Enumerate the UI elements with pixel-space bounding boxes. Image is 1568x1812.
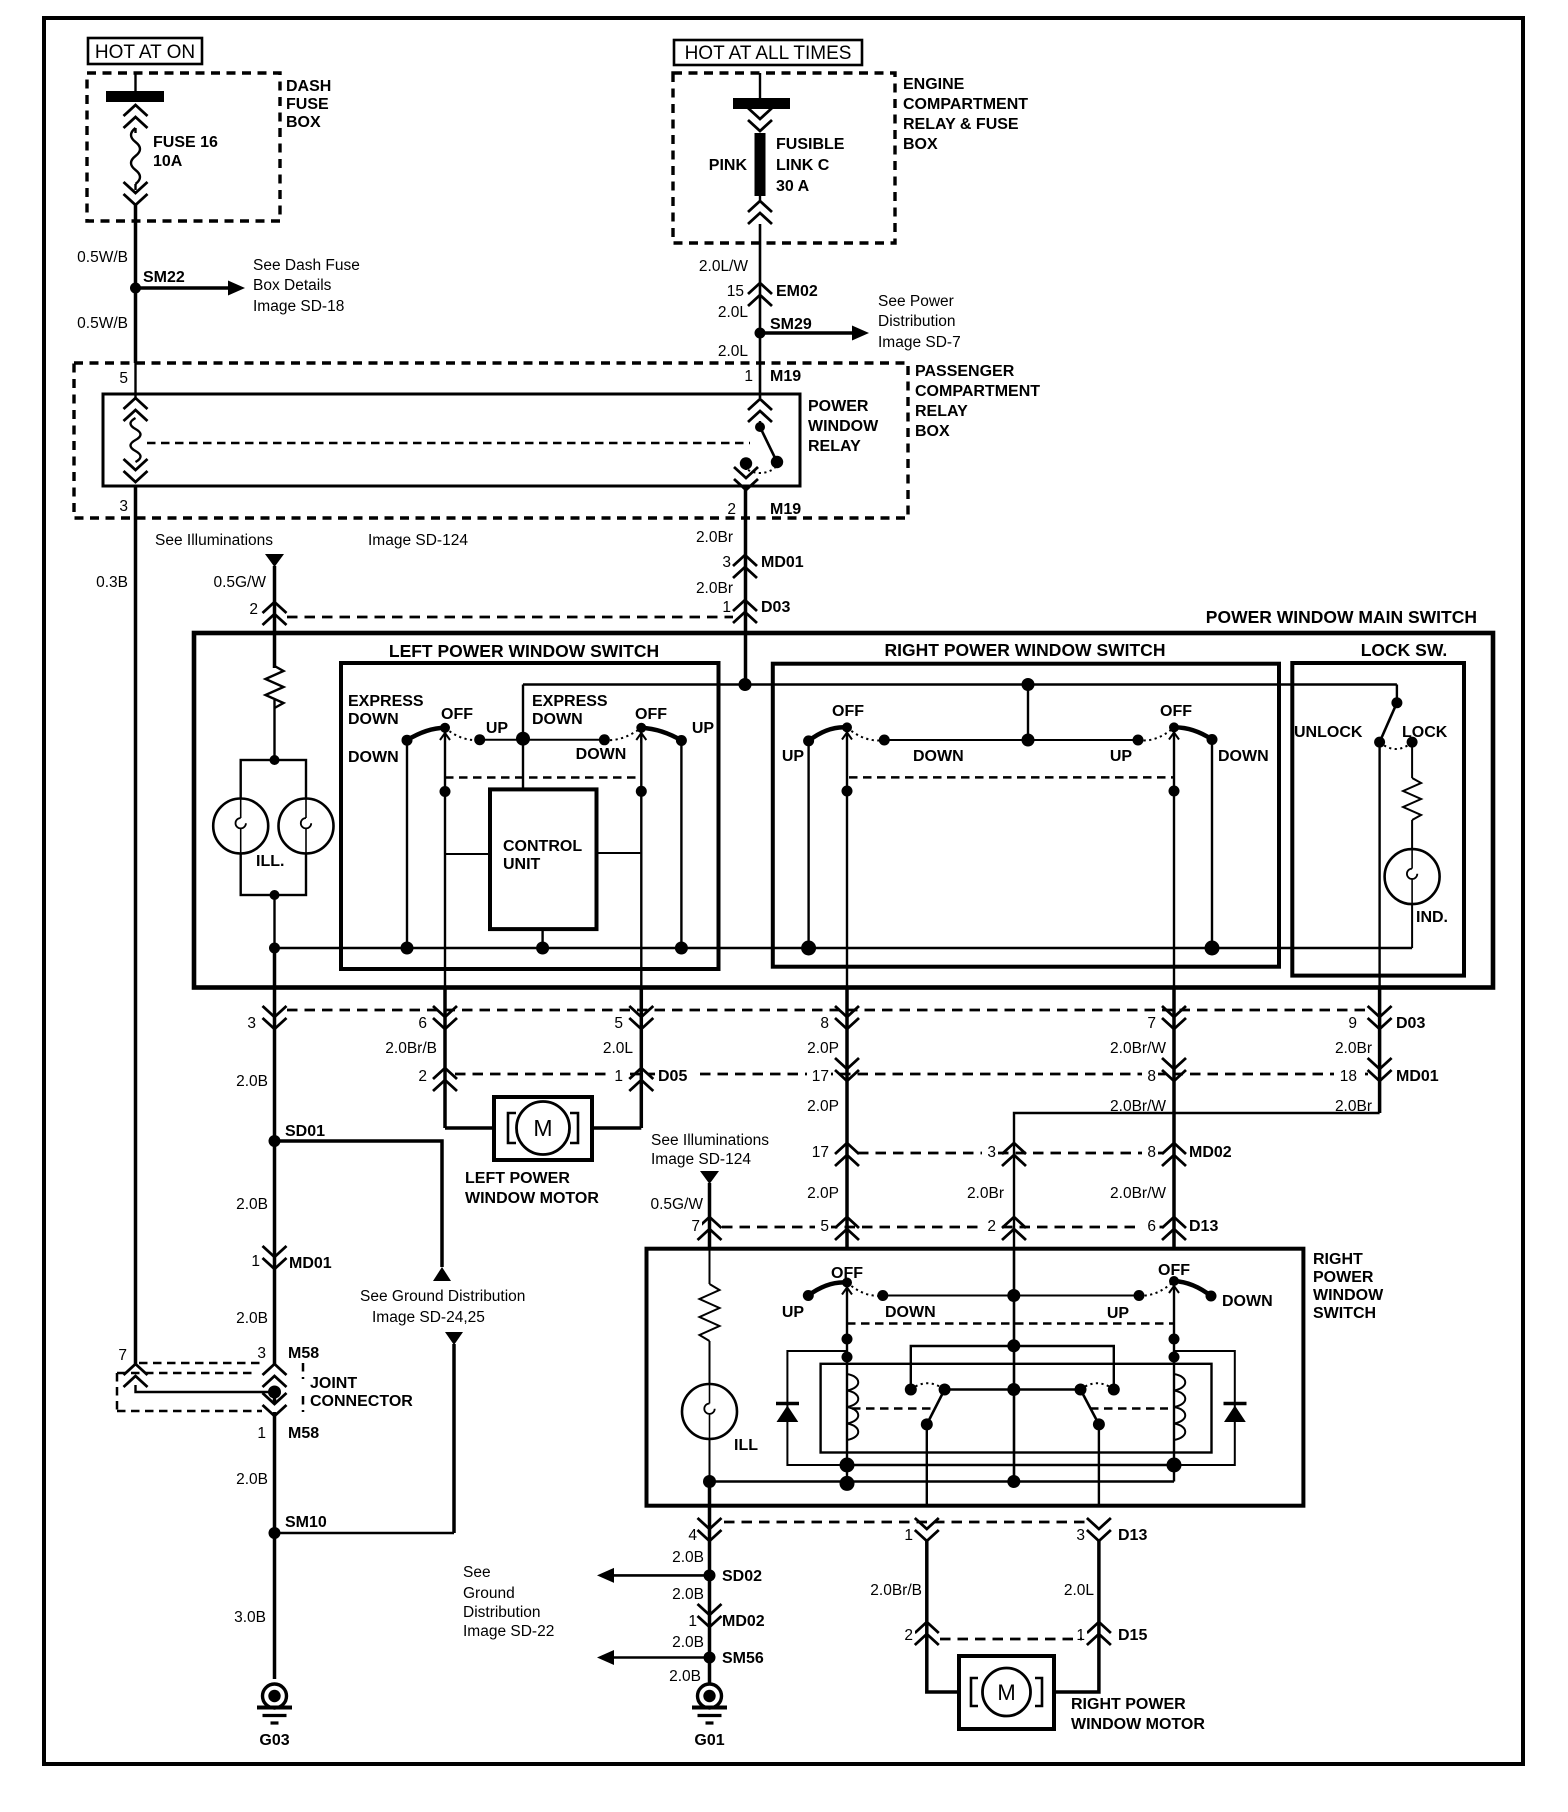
svg-text:1: 1: [251, 1253, 260, 1270]
svg-text:1: 1: [688, 1613, 697, 1630]
svg-text:1: 1: [1076, 1627, 1085, 1644]
svg-text:BOX: BOX: [903, 136, 938, 153]
svg-text:WINDOW MOTOR: WINDOW MOTOR: [1071, 1716, 1205, 1733]
svg-text:UP: UP: [782, 1304, 805, 1321]
svg-text:MD02: MD02: [1189, 1144, 1232, 1161]
svg-text:2: 2: [418, 1068, 427, 1085]
svg-text:2.0B: 2.0B: [236, 1310, 268, 1327]
svg-text:SM29: SM29: [770, 316, 812, 333]
svg-text:DOWN: DOWN: [913, 748, 964, 765]
svg-text:2.0L: 2.0L: [1064, 1582, 1095, 1599]
svg-text:0.5G/W: 0.5G/W: [650, 1196, 703, 1213]
svg-text:Image SD-124: Image SD-124: [651, 1151, 751, 1168]
svg-text:2.0L: 2.0L: [718, 343, 749, 360]
svg-text:CONTROL: CONTROL: [503, 838, 582, 855]
svg-text:2.0B: 2.0B: [236, 1196, 268, 1213]
svg-text:8: 8: [1147, 1144, 1156, 1161]
svg-text:2.0Br/B: 2.0Br/B: [385, 1040, 437, 1057]
svg-text:2: 2: [987, 1218, 996, 1235]
svg-text:D15: D15: [1118, 1627, 1147, 1644]
svg-text:LEFT POWER: LEFT POWER: [465, 1170, 570, 1187]
svg-text:UP: UP: [486, 720, 509, 737]
svg-text:DOWN: DOWN: [348, 711, 399, 728]
svg-text:10A: 10A: [153, 153, 183, 170]
svg-text:2.0Br: 2.0Br: [1335, 1040, 1372, 1057]
svg-text:5: 5: [614, 1015, 623, 1032]
svg-text:RELAY & FUSE: RELAY & FUSE: [903, 116, 1019, 133]
svg-text:2.0L/W: 2.0L/W: [699, 258, 748, 275]
svg-text:3: 3: [257, 1345, 266, 1362]
svg-text:17: 17: [812, 1144, 829, 1161]
svg-text:2.0B: 2.0B: [236, 1073, 268, 1090]
svg-text:Ground: Ground: [463, 1585, 515, 1602]
svg-text:WINDOW MOTOR: WINDOW MOTOR: [465, 1190, 599, 1207]
svg-text:FUSE: FUSE: [286, 96, 329, 113]
svg-text:SM10: SM10: [285, 1514, 327, 1531]
svg-text:DOWN: DOWN: [1222, 1293, 1273, 1310]
svg-text:M19: M19: [770, 501, 801, 518]
svg-text:ENGINE: ENGINE: [903, 76, 965, 93]
svg-text:See Illuminations: See Illuminations: [651, 1132, 769, 1149]
svg-text:2: 2: [249, 601, 258, 618]
svg-text:6: 6: [1147, 1218, 1156, 1235]
svg-text:SD02: SD02: [722, 1568, 762, 1585]
svg-text:Image SD-124: Image SD-124: [368, 532, 468, 549]
svg-text:RIGHT: RIGHT: [1313, 1251, 1363, 1268]
svg-text:M19: M19: [770, 368, 801, 385]
svg-text:17: 17: [812, 1068, 829, 1085]
svg-text:RELAY: RELAY: [915, 403, 968, 420]
svg-text:RIGHT POWER WINDOW SWITCH: RIGHT POWER WINDOW SWITCH: [885, 640, 1166, 660]
svg-text:UP: UP: [692, 720, 715, 737]
svg-text:MD01: MD01: [761, 554, 804, 571]
svg-text:MD01: MD01: [289, 1255, 332, 1272]
svg-text:7: 7: [118, 1347, 127, 1364]
svg-text:SWITCH: SWITCH: [1313, 1305, 1376, 1322]
svg-text:30 A: 30 A: [776, 178, 810, 195]
svg-text:2.0L: 2.0L: [603, 1040, 634, 1057]
svg-text:2.0B: 2.0B: [672, 1634, 704, 1651]
svg-text:D03: D03: [1396, 1015, 1425, 1032]
svg-text:OFF: OFF: [441, 706, 473, 723]
svg-text:9: 9: [1348, 1015, 1357, 1032]
svg-text:See Illuminations: See Illuminations: [155, 532, 273, 549]
svg-text:COMPARTMENT: COMPARTMENT: [915, 383, 1040, 400]
svg-text:EXPRESS: EXPRESS: [532, 693, 608, 710]
svg-text:7: 7: [1147, 1015, 1156, 1032]
svg-text:0.3B: 0.3B: [96, 574, 128, 591]
svg-text:Image SD-22: Image SD-22: [463, 1623, 554, 1640]
svg-text:2.0Br: 2.0Br: [967, 1185, 1004, 1202]
svg-text:LOCK: LOCK: [1402, 724, 1448, 741]
svg-text:0.5W/B: 0.5W/B: [77, 249, 128, 266]
svg-text:HOT AT ON: HOT AT ON: [95, 42, 195, 63]
svg-text:FUSE 16: FUSE 16: [153, 134, 218, 151]
svg-text:2: 2: [727, 501, 736, 518]
svg-text:EXPRESS: EXPRESS: [348, 693, 424, 710]
svg-text:DOWN: DOWN: [532, 711, 583, 728]
svg-text:M: M: [997, 1680, 1015, 1705]
svg-text:5: 5: [820, 1218, 829, 1235]
svg-text:1: 1: [904, 1527, 913, 1544]
svg-text:RELAY: RELAY: [808, 438, 861, 455]
svg-text:MD01: MD01: [1396, 1068, 1439, 1085]
svg-text:8: 8: [820, 1015, 829, 1032]
svg-text:DASH: DASH: [286, 78, 331, 95]
svg-text:2.0L: 2.0L: [718, 304, 749, 321]
svg-text:FUSIBLE: FUSIBLE: [776, 136, 845, 153]
svg-text:1: 1: [257, 1425, 266, 1442]
svg-text:RIGHT POWER: RIGHT POWER: [1071, 1696, 1186, 1713]
svg-text:PINK: PINK: [709, 157, 748, 174]
svg-text:M: M: [533, 1115, 552, 1141]
svg-text:UP: UP: [1107, 1305, 1130, 1322]
svg-text:5: 5: [119, 370, 128, 387]
svg-text:2.0P: 2.0P: [807, 1040, 839, 1057]
svg-text:OFF: OFF: [635, 706, 667, 723]
svg-text:M58: M58: [288, 1345, 319, 1362]
svg-text:1: 1: [722, 599, 731, 616]
svg-text:SM56: SM56: [722, 1650, 764, 1667]
svg-text:2.0P: 2.0P: [807, 1098, 839, 1115]
svg-text:OFF: OFF: [1160, 703, 1192, 720]
svg-text:2.0Br/B: 2.0Br/B: [870, 1582, 922, 1599]
svg-text:2.0B: 2.0B: [672, 1586, 704, 1603]
svg-text:2.0Br/W: 2.0Br/W: [1110, 1040, 1166, 1057]
svg-text:8: 8: [1147, 1068, 1156, 1085]
svg-text:IND.: IND.: [1416, 909, 1448, 926]
svg-text:D13: D13: [1118, 1527, 1147, 1544]
svg-text:Box Details: Box Details: [253, 277, 332, 294]
svg-text:Image SD-24,25: Image SD-24,25: [372, 1309, 485, 1326]
svg-text:2.0B: 2.0B: [236, 1471, 268, 1488]
svg-text:WINDOW: WINDOW: [1313, 1287, 1384, 1304]
svg-text:15: 15: [727, 283, 744, 300]
svg-text:4: 4: [688, 1527, 697, 1544]
svg-text:G03: G03: [259, 1732, 289, 1749]
svg-text:DOWN: DOWN: [1218, 748, 1269, 765]
svg-text:3: 3: [247, 1015, 256, 1032]
svg-text:2.0B: 2.0B: [672, 1549, 704, 1566]
svg-text:See Dash Fuse: See Dash Fuse: [253, 257, 360, 274]
svg-text:Distribution: Distribution: [463, 1604, 541, 1621]
svg-text:D03: D03: [761, 599, 790, 616]
svg-text:HOT AT ALL TIMES: HOT AT ALL TIMES: [685, 43, 852, 64]
svg-text:SD01: SD01: [285, 1123, 325, 1140]
svg-text:PASSENGER: PASSENGER: [915, 363, 1015, 380]
svg-text:Image SD-7: Image SD-7: [878, 334, 961, 351]
svg-text:6: 6: [418, 1015, 427, 1032]
svg-text:JOINT: JOINT: [310, 1375, 357, 1392]
svg-text:3.0B: 3.0B: [234, 1609, 266, 1626]
svg-text:DOWN: DOWN: [576, 746, 627, 763]
svg-text:SM22: SM22: [143, 269, 185, 286]
svg-text:0.5G/W: 0.5G/W: [213, 574, 266, 591]
svg-text:2: 2: [904, 1627, 913, 1644]
svg-text:3: 3: [119, 498, 128, 515]
svg-text:7: 7: [691, 1218, 700, 1235]
svg-text:Distribution: Distribution: [878, 313, 956, 330]
svg-text:LEFT POWER WINDOW SWITCH: LEFT POWER WINDOW SWITCH: [389, 641, 659, 661]
svg-text:2.0Br: 2.0Br: [696, 529, 733, 546]
svg-text:G01: G01: [694, 1732, 724, 1749]
svg-text:MD02: MD02: [722, 1613, 765, 1630]
svg-text:OFF: OFF: [832, 703, 864, 720]
svg-text:2.0B: 2.0B: [669, 1668, 701, 1685]
svg-text:WINDOW: WINDOW: [808, 418, 879, 435]
svg-text:ILL: ILL: [734, 1437, 758, 1454]
svg-text:POWER WINDOW MAIN SWITCH: POWER WINDOW MAIN SWITCH: [1206, 607, 1477, 627]
svg-text:18: 18: [1340, 1068, 1357, 1085]
svg-text:UP: UP: [1110, 748, 1133, 765]
svg-text:UNLOCK: UNLOCK: [1294, 724, 1363, 741]
svg-text:EM02: EM02: [776, 283, 818, 300]
svg-text:2.0P: 2.0P: [807, 1185, 839, 1202]
svg-text:3: 3: [1076, 1527, 1085, 1544]
svg-text:0.5W/B: 0.5W/B: [77, 315, 128, 332]
svg-text:UNIT: UNIT: [503, 856, 541, 873]
svg-text:COMPARTMENT: COMPARTMENT: [903, 96, 1028, 113]
svg-text:2.0Br/W: 2.0Br/W: [1110, 1185, 1166, 1202]
svg-text:DOWN: DOWN: [885, 1304, 936, 1321]
svg-text:1: 1: [744, 368, 753, 385]
svg-text:POWER: POWER: [1313, 1269, 1374, 1286]
svg-text:Image SD-18: Image SD-18: [253, 298, 344, 315]
svg-text:LINK C: LINK C: [776, 157, 830, 174]
svg-text:1: 1: [614, 1068, 623, 1085]
svg-text:See Power: See Power: [878, 293, 954, 310]
svg-text:D13: D13: [1189, 1218, 1218, 1235]
svg-text:BOX: BOX: [915, 423, 950, 440]
svg-text:See Ground Distribution: See Ground Distribution: [360, 1288, 525, 1305]
svg-text:3: 3: [987, 1144, 996, 1161]
svg-text:ILL.: ILL.: [256, 853, 284, 870]
svg-text:See: See: [463, 1564, 491, 1581]
svg-text:CONNECTOR: CONNECTOR: [310, 1393, 413, 1410]
svg-text:M58: M58: [288, 1425, 319, 1442]
svg-text:D05: D05: [658, 1068, 687, 1085]
svg-text:POWER: POWER: [808, 398, 869, 415]
svg-text:2.0Br: 2.0Br: [696, 580, 733, 597]
svg-text:DOWN: DOWN: [348, 749, 399, 766]
svg-text:BOX: BOX: [286, 114, 321, 131]
svg-text:UP: UP: [782, 748, 805, 765]
svg-text:3: 3: [722, 554, 731, 571]
svg-text:LOCK SW.: LOCK SW.: [1361, 640, 1448, 660]
